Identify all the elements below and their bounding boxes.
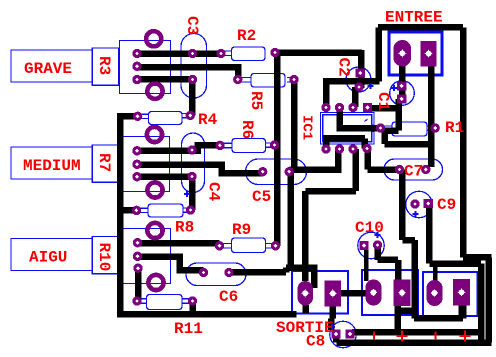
plus mark C9	[413, 211, 419, 217]
capacitor C9 outline circle	[406, 191, 432, 217]
wire C5 right pad down	[288, 172, 295, 268]
resistor R4 leads	[140, 114, 188, 119]
label box GRAVE	[11, 50, 92, 82]
pad C2 top square	[356, 69, 365, 78]
pad R11 left	[132, 296, 141, 305]
wire H1 pad2b-jog to pad3b	[414, 296, 463, 318]
pot group rect AIGU	[120, 229, 171, 284]
plus mark block3 rect	[460, 331, 471, 342]
pad R1 left	[376, 123, 385, 132]
wire aigu a3 to R11 left	[135, 268, 142, 301]
box R10	[92, 237, 118, 274]
wire pad1b down to C8 left	[331, 306, 333, 330]
capacitor C6 outline	[186, 263, 246, 286]
resistor R1 leads	[383, 126, 433, 130]
donut MEDIUM top	[147, 127, 162, 142]
pads IC1 bottom row	[321, 144, 330, 153]
pad C8 right square	[345, 330, 354, 339]
wire top border from IC pad1	[323, 27, 492, 342]
pads C6	[199, 268, 208, 277]
wire medium m3	[137, 173, 192, 180]
wire C4 bottom to R8 right	[189, 177, 196, 210]
pads C7	[395, 165, 404, 174]
pad ENTREE left oval	[393, 40, 411, 67]
pot group rect MEDIUM	[120, 137, 170, 192]
capacitor C8 outline circle	[330, 321, 356, 347]
plus mark block2 rect	[397, 331, 408, 342]
capacitor C7 outline	[384, 159, 443, 180]
resistor R6 body	[232, 139, 266, 153]
pad R2 right	[270, 48, 279, 57]
wire R2 right vertical chain to R6 right and R9 right	[274, 53, 281, 246]
wire H2 from C8 right to C9 drop	[352, 329, 481, 336]
resistor R4 body	[149, 112, 183, 125]
red polarity marks bottom row	[374, 331, 471, 342]
svg-text:R11: R11	[174, 320, 203, 338]
wire pad2b stub down to H2	[395, 306, 402, 332]
pad R9 right	[271, 241, 280, 250]
svg-text:C2: C2	[335, 58, 353, 77]
pad R4 left	[133, 112, 142, 121]
wire C7 left chain down to H1	[398, 170, 415, 319]
wire grave t3	[137, 76, 193, 83]
capacitor C4 outline	[182, 133, 205, 193]
IC1 inner tick	[365, 119, 368, 122]
minus mark block3 oval	[435, 332, 437, 341]
pads C5	[258, 167, 267, 176]
donut AIGU bottom	[148, 275, 163, 290]
pot group rect GRAVE	[120, 41, 171, 94]
pad C1 top square	[397, 82, 406, 91]
wire ENTREE right pad down through R1 right to C7 right	[428, 62, 435, 167]
pad R9 left	[215, 241, 224, 250]
wire R5 right down to C5 right	[291, 80, 298, 168]
wire IC bottom pad4 to C7 left	[368, 149, 400, 170]
wire pad3b stub down to H1	[458, 303, 465, 318]
wire main left vertical	[117, 113, 124, 313]
wire R1 left stub to vertical 431	[385, 130, 432, 144]
svg-text:GRAVE: GRAVE	[24, 60, 72, 78]
box R3	[92, 48, 118, 85]
svg-text:IC1: IC1	[299, 115, 315, 140]
wire medium m2 to C5 left	[137, 165, 263, 173]
pad C9 left	[410, 199, 419, 208]
pad R8 left	[132, 206, 141, 215]
capacitor C3 outline	[181, 34, 207, 99]
wire R4 left to main left vertical	[120, 113, 138, 120]
connector block 2	[362, 270, 418, 315]
wire IC bottom pad2 to C5 right	[290, 149, 342, 170]
wire C6 right to block1 pad1a	[229, 268, 314, 289]
resistor R11 leads	[140, 299, 191, 304]
pad C10 left square	[359, 241, 368, 250]
svg-text:C5: C5	[252, 188, 271, 206]
svg-text:R7: R7	[95, 153, 113, 172]
pad R6 right	[270, 140, 279, 149]
svg-text:R2: R2	[237, 27, 256, 45]
resistor R11 body	[147, 295, 183, 310]
plus mark C4	[184, 191, 190, 197]
capacitor C5 outline	[246, 159, 307, 185]
wire R11 right down to bottom trace	[190, 302, 197, 313]
svg-text:C4: C4	[205, 182, 223, 202]
pads IC1 top row	[321, 103, 330, 112]
donut AIGU top	[147, 223, 162, 238]
plus mark C1	[391, 85, 397, 91]
wire aigu a2 to C6 left	[138, 257, 204, 271]
wire medium m1	[137, 145, 220, 151]
donut MEDIUM bottom	[147, 182, 162, 197]
donut GRAVE top	[146, 31, 161, 46]
label box MEDIUM	[11, 147, 92, 179]
plus mark C10	[375, 232, 381, 238]
pad R5 left	[233, 75, 242, 84]
resistor R6 leads	[223, 143, 273, 148]
wire pad1a stub from bottom trace	[302, 305, 309, 313]
IC1 outline double rect	[321, 113, 375, 145]
wire aigu a1 to R9 left	[138, 240, 220, 247]
pad C1 bottom square	[397, 95, 406, 104]
pads C4	[187, 145, 196, 154]
svg-text:R1: R1	[445, 119, 464, 137]
svg-text:R8: R8	[175, 219, 194, 237]
svg-text:C9: C9	[437, 196, 456, 214]
svg-text:C1: C1	[374, 92, 392, 111]
svg-text:R9: R9	[232, 221, 251, 239]
svg-text:R6: R6	[238, 120, 256, 139]
pads C3	[188, 49, 197, 58]
wire C1 bottom down into R1 body to R1 left pad	[383, 99, 399, 131]
pad R11 right	[188, 296, 197, 305]
wire C3 bottom to R4 right	[189, 80, 196, 116]
pad block3 rect	[453, 279, 470, 305]
pad ENTREE right rect	[421, 41, 437, 67]
wire C2 chain down to IC1 top pad3	[355, 50, 361, 107]
pad R2 left	[216, 49, 225, 58]
pad R1 right	[431, 123, 440, 132]
IC1 pin1 notch	[369, 125, 375, 133]
capacitor C2 outline circle	[346, 67, 371, 92]
wire IC top pad4 to C1 chain	[368, 105, 399, 112]
wire C10 right chain to pad2b	[378, 248, 398, 280]
minus mark block2 oval	[373, 332, 375, 341]
label box AIGU	[11, 239, 92, 271]
svg-text:C3: C3	[183, 16, 201, 35]
wire IC bottom pad3 down to block1 pad1a	[305, 149, 355, 281]
wire bottom left horizontal	[117, 311, 296, 318]
svg-text:C6: C6	[219, 288, 238, 306]
resistor R2 body	[232, 47, 266, 61]
svg-text:R10: R10	[95, 243, 113, 272]
capacitor C1 outline circle	[390, 81, 415, 106]
resistor R5 leads	[240, 78, 292, 83]
connector ENTREE outline	[389, 32, 442, 75]
svg-text:R5: R5	[247, 91, 265, 110]
svg-text:R4: R4	[198, 111, 218, 129]
pad R5 right	[289, 75, 298, 84]
svg-text:ENTREE: ENTREE	[385, 9, 443, 27]
wire grave t1	[137, 50, 221, 57]
pad C8 left square	[331, 330, 340, 339]
wire IC top pad2 to R1 left	[337, 108, 381, 129]
wire ENTREE left pad down through C1	[399, 62, 406, 99]
box R7	[92, 145, 118, 182]
capacitor C10 outline circle	[358, 232, 384, 258]
wire C10 left stub to pad2a	[364, 248, 369, 281]
pad block1 rect	[325, 280, 341, 306]
wire C9 right chain to bottom right	[429, 205, 481, 342]
pad block2 rect	[394, 280, 411, 307]
svg-text:R3: R3	[95, 56, 113, 75]
svg-text:C8: C8	[306, 333, 325, 351]
connector block 3	[423, 272, 478, 316]
donut GRAVE bottom	[147, 84, 162, 99]
resistor R8 body	[148, 204, 183, 217]
pads GRAVE group column	[132, 49, 141, 58]
svg-text:C10: C10	[355, 219, 384, 237]
resistor R1 body	[392, 122, 427, 136]
resistor R2 leads	[223, 51, 232, 56]
wire pad3a stub from C9 chain	[433, 264, 438, 281]
pad C2 bottom	[354, 82, 363, 91]
pad IC1 top pin square	[363, 103, 372, 112]
pad C10 right	[373, 240, 382, 249]
wire R2 right to C2 top corner	[275, 49, 362, 56]
pad block1 oval	[298, 281, 314, 306]
plus mark C2	[368, 83, 374, 89]
wire IC internal bottom pad1 to bottom pad4	[323, 138, 365, 149]
pad C9 right square	[424, 199, 433, 208]
pad R8 right	[186, 205, 195, 214]
resistor R5 body	[251, 74, 285, 88]
resistor R9 body	[232, 238, 266, 253]
resistor R9 leads	[222, 244, 273, 249]
svg-text:AIGU: AIGU	[29, 249, 67, 267]
connector block 1 SORTIE	[292, 271, 348, 314]
pad R4 right	[186, 111, 195, 120]
resistor R8 leads	[139, 208, 188, 212]
pads AIGU group column	[133, 238, 142, 247]
pad block3 oval	[427, 280, 443, 306]
wire pad1b to pad2a	[340, 290, 366, 297]
svg-text:MEDIUM: MEDIUM	[23, 157, 81, 175]
plus mark C8	[329, 324, 335, 330]
wire R8 left to main vertical	[119, 207, 137, 214]
wire grave t2 + drop to R5 left	[137, 67, 238, 80]
pad R6 left	[215, 141, 224, 150]
pad block2 oval	[366, 280, 382, 306]
svg-text:C7: C7	[404, 163, 423, 181]
pads MEDIUM group column	[132, 146, 141, 155]
